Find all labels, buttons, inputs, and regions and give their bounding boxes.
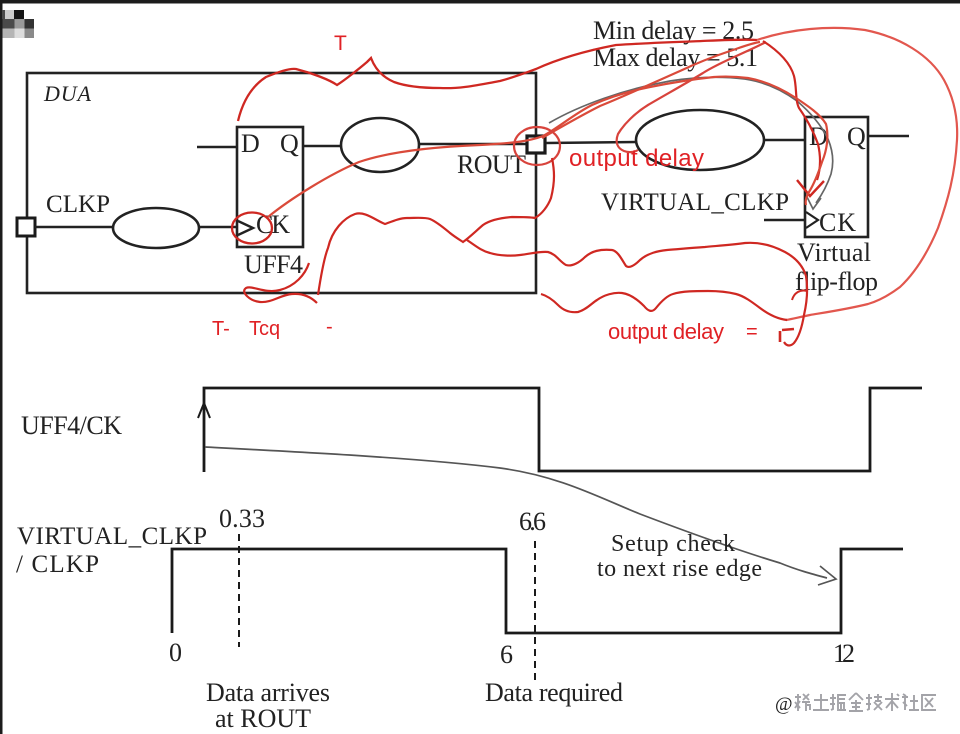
red squiggle W1 to ROUT circle: [318, 158, 554, 295]
pixelated logo mosaic top-left: [2, 10, 34, 38]
red small arc at crossing: [792, 290, 807, 300]
node CLKP input port: [17, 218, 35, 236]
svg-text:Setup check: Setup check: [611, 531, 735, 557]
wire Q output VFF: [868, 135, 909, 137]
svg-text:0.33: 0.33: [219, 504, 265, 533]
CK clock triangle UFF4: [238, 221, 253, 235]
dashed marker 6.6: [534, 541, 536, 682]
VIRTUAL_CLKP waveform: [172, 549, 903, 633]
gray arrowhead at VFF: [807, 197, 821, 209]
svg-text:Data arrives: Data arrives: [206, 678, 330, 707]
net delay ellipse (middle): [341, 118, 419, 172]
svg-text:-: -: [326, 316, 333, 338]
dashed marker 0.33: [238, 534, 240, 647]
svg-text:UFF4/CK: UFF4/CK: [21, 411, 122, 440]
svg-text:DUA: DUA: [43, 81, 92, 106]
gray arc ROUT to VFF clock: [549, 77, 833, 203]
wire CLKP port to clock buffer: [35, 226, 114, 228]
gray arrowhead setup-check: [818, 566, 836, 585]
svg-text:6.6: 6.6: [519, 507, 546, 536]
red long wavy W2: [467, 240, 807, 346]
CK clock triangle VFF: [806, 212, 818, 228]
svg-text:6: 6: [500, 640, 513, 669]
wire VIRTUAL_CLKP to VFF CK: [764, 219, 806, 221]
svg-text:/ CLKP: / CLKP: [16, 551, 99, 578]
svg-text:D: D: [241, 129, 260, 158]
svg-text:12: 12: [833, 639, 855, 668]
node ROUT output port: [527, 136, 545, 153]
watermark: [775, 693, 936, 715]
svg-text:Q: Q: [280, 129, 299, 158]
wire ellipse to ROUT port: [419, 143, 527, 145]
svg-text:T-: T-: [212, 318, 230, 340]
svg-text:Q: Q: [847, 122, 866, 151]
svg-text:Data required: Data required: [485, 678, 623, 707]
svg-text:0: 0: [169, 638, 182, 667]
wire D input UFF4: [197, 146, 237, 148]
svg-text:VIRTUAL_CLKP: VIRTUAL_CLKP: [17, 523, 207, 550]
svg-text:@: @: [775, 694, 793, 715]
UFF4/CK waveform: [204, 388, 922, 472]
clock network ellipse (left): [113, 208, 199, 248]
red circle around ROUT: [514, 127, 560, 165]
red diagonal CK to top right (R-B): [542, 42, 760, 138]
svg-text:CLKP: CLKP: [46, 191, 110, 218]
red squiggle below UFF4: [244, 263, 317, 303]
svg-text:output delay: output delay: [608, 319, 724, 344]
red arc CK through ROUT into virtual FF (B2): [268, 77, 827, 217]
svg-text:T: T: [334, 32, 347, 55]
red hairpin descend to VFF arrow (R-A): [763, 41, 820, 180]
DUA box: [27, 73, 536, 293]
arrow up on UFF4/CK rising edge: [198, 403, 210, 418]
svg-text:output delay: output delay: [569, 145, 704, 172]
flip-flop UFF4: [237, 127, 303, 247]
svg-text:at ROUT: at ROUT: [215, 704, 311, 733]
virtual flip-flop: [805, 117, 868, 237]
red brace over DUA: [238, 40, 757, 121]
svg-text:CK: CK: [819, 208, 856, 237]
red bracket glyph: [780, 329, 794, 342]
red big loop right: [757, 28, 957, 320]
svg-text:to next rise edge: to next rise edge: [597, 556, 762, 582]
svg-text:Virtual: Virtual: [797, 238, 871, 267]
red circle around UFF4 CK: [232, 213, 272, 244]
svg-text:Tcq: Tcq: [249, 318, 280, 340]
red long wavy W3: [541, 291, 787, 320]
gray setup-check curve: [205, 447, 827, 578]
output delay ellipse (right): [636, 110, 764, 170]
top border bar: [0, 0, 960, 4]
svg-text:=: =: [746, 321, 758, 343]
wire ROUT to output ellipse: [546, 142, 637, 143]
red arc into ellipse (R-C): [617, 42, 766, 152]
svg-text:VIRTUAL_CLKP: VIRTUAL_CLKP: [601, 189, 789, 216]
red arrowhead at VFF CK: [797, 180, 824, 196]
wire buffer to UFF4 CK: [199, 226, 238, 228]
left border bar: [0, 0, 3, 734]
svg-text:UFF4: UFF4: [244, 250, 303, 279]
wire ellipse to virtual FF D: [764, 139, 805, 141]
wire Q output UFF4: [303, 145, 341, 147]
